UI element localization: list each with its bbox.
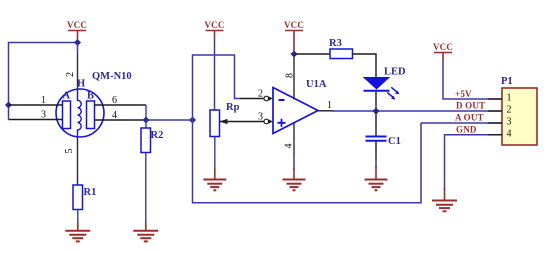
svg-text:1: 1 [327,100,332,111]
svg-text:+5V: +5V [455,89,472,99]
wire sensor node to R2 / comparator net [146,119,193,121]
wire VCC2 down to Rp [214,38,216,110]
resistor R2 [141,120,163,227]
svg-text:VCC: VCC [67,20,87,30]
junction at VCC1 stub [74,39,81,46]
sensor electrode B [87,101,95,129]
junction sensor node at R2 [142,116,149,123]
wire sensor node down to bottom A OUT run [193,120,422,203]
wire op-amp output to P1 pin 2 (D OUT net) [332,110,502,112]
svg-text:P1: P1 [501,76,513,87]
svg-text:Rp: Rp [226,102,240,113]
P1 pin 2 stub [488,110,502,112]
svg-text:A: A [63,91,71,102]
ground under C1 [365,166,388,190]
svg-text:VCC: VCC [284,20,304,30]
svg-text:GND: GND [456,124,477,134]
junction VCC3 / R3 / pin8 [290,50,297,57]
sensor heater coil [78,89,82,137]
op-amp pin 4 (V-) [284,122,295,170]
op-amp pin 2 input [240,89,273,101]
svg-text:B: B [87,91,94,102]
op-amp U1A [273,79,327,134]
sensor pin 2 (heater top) wire from VCC1 [77,43,79,55]
sensor pin 4 wire [95,119,147,121]
svg-text:2: 2 [258,89,263,100]
svg-text:R1: R1 [84,187,97,198]
wire pin6 corner down to node [145,105,147,120]
power VCC2 (above Rp) [204,20,224,38]
svg-text:6: 6 [112,95,117,106]
power VCC4 (connector +5V) [433,42,453,60]
connector P1 [488,76,537,145]
sensor pin 1 wire [9,104,63,106]
svg-text:3: 3 [258,112,263,123]
svg-text:D OUT: D OUT [456,101,485,111]
minus sign [279,99,285,101]
svg-text:2: 2 [507,105,512,116]
ground under R1 [65,222,90,241]
plus sign [278,119,286,127]
svg-text:2: 2 [65,72,76,77]
resistor R3 [294,38,376,77]
junction output / LED / C1 [372,107,379,114]
svg-text:U1A: U1A [306,79,327,90]
svg-text:1: 1 [507,93,512,104]
sensor electrode A [63,101,71,129]
svg-text:R2: R2 [151,130,164,141]
emission arrow 2 [387,93,393,98]
sensor pin 6 wire [95,104,147,106]
wiper arrow [220,121,265,123]
LED D1 [364,67,407,112]
svg-text:5: 5 [64,149,75,154]
wire A OUT row to P1 pin 3 [421,122,502,124]
P1 pin 4 stub [488,134,502,136]
sensor pin 3 wire [9,119,63,121]
P1 pin 3 stub [488,122,502,124]
wire GND row from P1 pin 4 [445,135,503,190]
wire VCC4 down to +5V row [443,60,502,99]
svg-text:LED: LED [384,67,406,78]
potentiometer Rp [210,102,264,170]
junction sensor node at vertical riser [189,116,196,123]
svg-text:A OUT: A OUT [455,113,484,123]
op-amp pin 1 output [318,100,334,111]
svg-text:3: 3 [41,110,46,121]
svg-text:8: 8 [285,73,296,78]
svg-text:VCC: VCC [433,42,453,52]
svg-text:VCC: VCC [204,20,224,30]
op-amp pin 3 input [258,112,273,124]
P1 pin 1 stub [488,98,502,100]
svg-text:4: 4 [507,129,512,140]
power VCC3 (op-amp supply) [284,20,304,54]
svg-text:4: 4 [284,144,295,149]
svg-text:3: 3 [507,117,512,128]
ground under Rp [203,168,226,190]
emission arrow 1 [391,87,397,92]
svg-text:4: 4 [112,110,117,121]
op-amp pin 8 (V+) [285,54,296,100]
ground under R2 [133,222,158,241]
ground under op-amp [283,168,306,190]
wire sensor node riser to op-amp pin 2 [193,55,241,120]
svg-text:C1: C1 [388,136,401,147]
junction at node of pins 1,3 [5,101,12,108]
wire from VCC1 junction left and down to sensor pins 1,3 [9,43,78,120]
gas sensor QM-N10 body circle [56,89,104,137]
svg-text:QM-N10: QM-N10 [92,71,132,82]
svg-text:R3: R3 [329,38,342,49]
ground at connector [432,188,457,211]
svg-text:1: 1 [41,95,46,106]
sensor pin 5 (heater bottom) wire to R1 [77,137,79,185]
capacitor C1 [366,111,401,168]
power VCC1 (sensor heater supply) [67,20,87,43]
svg-text:H: H [77,79,85,90]
resistor R1 [73,185,96,227]
